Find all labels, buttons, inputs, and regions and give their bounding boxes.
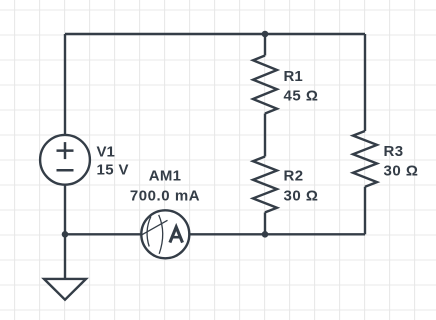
wire right vertical bottom lead [364, 187, 366, 235]
wire bottom horizontal [65, 233, 365, 235]
svg-text:R3: R3 [384, 143, 404, 160]
node junction dot bottom left [62, 231, 69, 238]
wire ground lead [64, 234, 66, 278]
resistor R1 [253, 56, 277, 114]
wire top horizontal [65, 33, 365, 35]
svg-text:30 Ω: 30 Ω [284, 188, 319, 205]
wire middle branch top lead [264, 34, 266, 56]
ammeter AM1 [141, 210, 189, 258]
svg-text:AM1: AM1 [149, 168, 182, 185]
wire R2 bottom lead [264, 212, 266, 234]
wire between R1 and R2 [264, 114, 266, 157]
svg-text:R1: R1 [284, 68, 303, 85]
voltage source V1 [40, 135, 90, 185]
svg-text:30 Ω: 30 Ω [384, 163, 419, 180]
svg-text:700.0 mA: 700.0 mA [130, 187, 200, 204]
node junction dot top middle [262, 31, 269, 38]
resistor R3 [353, 131, 377, 187]
svg-text:45 Ω: 45 Ω [284, 87, 319, 104]
node junction dot bottom middle [262, 231, 269, 238]
resistor R2 [253, 157, 277, 213]
svg-text:R2: R2 [284, 167, 304, 184]
wire right vertical top lead [364, 34, 366, 131]
ground [44, 279, 86, 300]
wire left vertical [64, 34, 66, 234]
svg-text:15 V: 15 V [97, 162, 129, 179]
svg-text:V1: V1 [97, 144, 115, 161]
